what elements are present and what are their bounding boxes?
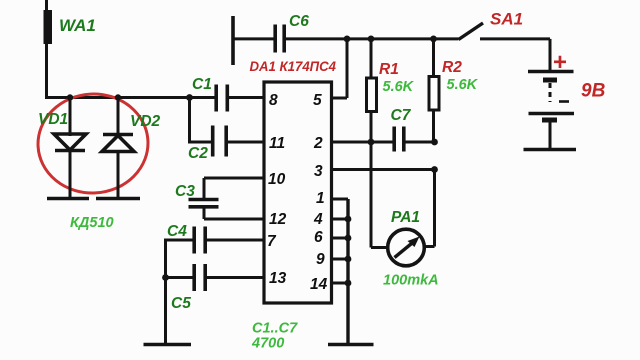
svg-text:7: 7 (267, 233, 277, 250)
wire junction down to C2 (188, 98, 191, 144)
svg-text:8: 8 (269, 92, 278, 109)
svg-text:C1..C7: C1..C7 (252, 321, 298, 337)
capacitor C6 terminal bar (231, 16, 235, 65)
svg-text:100mkA: 100mkA (383, 273, 439, 289)
ground VD2 (96, 197, 140, 201)
svg-text:PA1: PA1 (391, 209, 420, 226)
capacitor C7 (391, 107, 435, 152)
diode VD1 (38, 98, 86, 198)
node VD2 top (115, 94, 121, 100)
node C6/pin5 (344, 36, 351, 43)
node pin14 bus (345, 280, 352, 287)
node R1 top (368, 36, 375, 43)
wire pin 3 to R2 branch (332, 168, 435, 171)
svg-text:14: 14 (310, 276, 328, 293)
op-amp / IC DA1 К174ПС4 (250, 58, 337, 303)
svg-text:4: 4 (313, 211, 323, 228)
svg-text:DA1 К174ПС4: DA1 К174ПС4 (250, 58, 337, 74)
battery GB1 9В (524, 39, 606, 150)
ground bus wire (346, 199, 349, 343)
node pin9 bus (345, 256, 352, 263)
node pin6 bus (345, 235, 352, 242)
capacitor C3 (175, 178, 264, 219)
diode VD2 (102, 98, 161, 198)
wire pin 1 (332, 198, 349, 201)
capacitor C2 (188, 126, 264, 163)
capacitor C4 (166, 223, 265, 254)
wire pin 6 (332, 237, 349, 240)
svg-text:12: 12 (269, 211, 287, 228)
svg-text:4700: 4700 (251, 336, 284, 352)
ground VD1 (47, 197, 89, 201)
svg-text:C7: C7 (391, 107, 412, 124)
svg-text:C5: C5 (171, 295, 191, 312)
wire pin 5 to top rail (332, 39, 348, 98)
svg-text:5: 5 (313, 92, 322, 109)
svg-text:C6: C6 (289, 13, 309, 30)
switch SA1 (459, 10, 551, 40)
resistor R1 (367, 39, 415, 142)
antenna WA1 (44, 0, 96, 98)
svg-text:VD1: VD1 (38, 111, 68, 128)
svg-text:SA1: SA1 (490, 10, 523, 29)
node pin4 bus (345, 216, 352, 223)
svg-text:5.6K: 5.6K (447, 77, 479, 93)
node VD1 top (67, 94, 73, 100)
ground C4/C5 (144, 343, 192, 347)
svg-text:9: 9 (316, 251, 325, 268)
svg-text:WA1: WA1 (59, 16, 96, 35)
svg-text:1: 1 (316, 190, 325, 207)
capacitor C6 (232, 13, 310, 53)
wire top rail C6 to switch (286, 37, 459, 40)
svg-text:6: 6 (314, 229, 323, 246)
svg-text:13: 13 (269, 270, 287, 287)
svg-text:R1: R1 (379, 61, 399, 78)
svg-text:11: 11 (269, 135, 285, 152)
red circle around diodes (35, 91, 150, 196)
node C1/C2 junction (186, 94, 193, 101)
value C1..C7 4700 (251, 321, 298, 352)
node C7 left (368, 139, 375, 146)
node C7 right (431, 139, 438, 146)
ground bus bar (328, 343, 374, 347)
svg-text:VD2: VD2 (130, 113, 161, 130)
svg-text:C2: C2 (188, 145, 208, 162)
wire pin 4 (332, 218, 349, 221)
svg-text:C1: C1 (192, 76, 212, 93)
wire pin 9 (332, 258, 349, 261)
wire antenna to C1 node (45, 96, 190, 99)
wire pin 2 to R1 bottom / C7 (332, 141, 393, 144)
resistor R2 (429, 39, 479, 142)
svg-text:3: 3 (314, 163, 323, 180)
node R2 top (430, 36, 437, 43)
node pin3/R2 branch (431, 166, 438, 173)
svg-text:R2: R2 (442, 59, 462, 76)
svg-text:9В: 9В (581, 81, 606, 102)
meter PA1 (383, 209, 439, 289)
svg-text:КД510: КД510 (70, 215, 114, 231)
svg-text:C4: C4 (167, 223, 187, 240)
svg-text:5.6K: 5.6K (383, 79, 415, 95)
wire C4/C5 rail (164, 239, 167, 344)
capacitor C5 (166, 264, 265, 312)
svg-text:2: 2 (313, 135, 323, 152)
node C5 left (162, 274, 169, 281)
capacitor C1 (190, 76, 265, 112)
wire pin 14 (332, 282, 349, 285)
svg-text:C3: C3 (175, 183, 195, 200)
svg-text:10: 10 (268, 171, 286, 188)
meter PA1 wires (371, 142, 435, 248)
